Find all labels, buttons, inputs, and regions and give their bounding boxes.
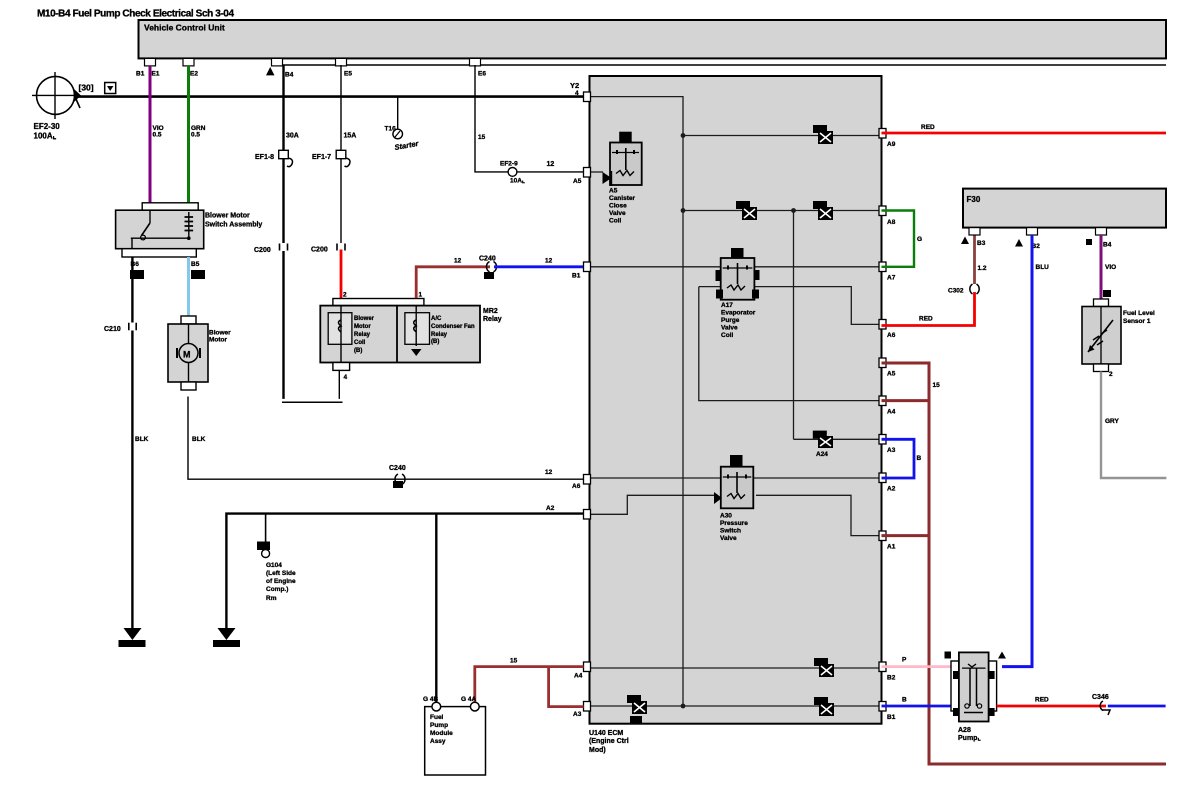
svg-text:[30]: [30] [79,83,94,93]
svg-text:A3: A3 [573,711,582,718]
svg-text:Sensor 1: Sensor 1 [1123,318,1151,325]
svg-text:0.5: 0.5 [191,132,200,139]
internal wiring [590,97,882,706]
svg-text:Mod): Mod) [589,747,606,754]
svg-text:F30: F30 [967,195,981,204]
svg-text:Motor: Motor [209,337,228,344]
svg-text:Purge: Purge [721,317,740,324]
inline connector on wire 2 [311,243,346,254]
svg-text:B1: B1 [572,273,581,280]
svg-text:Condenser Fan: Condenser Fan [431,324,475,330]
svg-text:C240: C240 [389,465,406,472]
ground G1 [119,628,146,647]
svg-text:(B): (B) [354,348,362,354]
svg-text:12: 12 [454,258,462,265]
svg-text:M: M [183,350,191,360]
svg-text:12: 12 [545,258,553,265]
connector C346 [1092,694,1110,715]
svg-text:Rm: Rm [266,595,277,602]
svg-text:Relay: Relay [431,332,448,338]
fuel pump feed wire [435,514,437,702]
svg-text:10A⌞: 10A⌞ [510,178,525,185]
relay output wire [338,370,340,399]
svg-text:M10-B4 Fuel Pump Check Electri: M10-B4 Fuel Pump Check Electrical Sch 3-… [37,9,234,20]
svg-text:A5: A5 [573,178,582,185]
svg-text:BLU: BLU [1036,264,1050,271]
svg-text:G104: G104 [266,562,282,569]
svg-text:A4: A4 [887,409,896,416]
svg-text:Coil: Coil [721,332,733,339]
fuse EF1-7 [312,133,356,167]
brown wire [973,235,976,284]
left ground wire [131,257,133,629]
svg-text:GRY: GRY [1105,418,1120,425]
svg-text:A2: A2 [546,505,555,512]
fuse EF2-9 [500,161,525,185]
red to fuse bar [882,292,975,326]
svg-text:Vehicle Control Unit: Vehicle Control Unit [144,23,225,33]
svg-text:A17: A17 [721,302,733,309]
junction dots [681,133,686,138]
svg-text:RED: RED [921,124,935,131]
svg-text:A6: A6 [887,332,896,339]
svg-text:Valve: Valve [721,325,738,332]
cyan wire [187,257,190,316]
svg-text:A5: A5 [887,371,896,378]
svg-text:1.2: 1.2 [978,265,987,272]
fuse bar right [963,189,1166,228]
svg-text:Valve: Valve [609,210,626,217]
fuse EF1-8 [255,133,299,167]
svg-text:Switch Assembly: Switch Assembly [205,222,262,229]
svg-text:P: P [902,657,907,664]
svg-text:of Engine: of Engine [266,578,296,585]
wire purple [149,66,152,203]
red wire to relay box [340,250,343,300]
svg-text:A9: A9 [887,141,896,148]
svg-text:B4: B4 [1103,242,1112,249]
svg-text:B1: B1 [887,714,896,721]
blower motor M1 [168,316,208,390]
svg-text:C240: C240 [479,256,496,263]
svg-text:BLK: BLK [192,436,206,443]
svg-text:EF2-9: EF2-9 [500,161,518,168]
gray wire [1101,372,1166,479]
main battery feed wire [74,95,590,98]
svg-text:A6: A6 [572,483,581,490]
svg-text:RED: RED [1035,697,1049,704]
svg-text:C210: C210 [104,326,121,333]
fused wire 2 (thin) [340,65,342,250]
green loop [882,211,915,267]
svg-text:1: 1 [419,292,423,299]
svg-text:E6: E6 [478,71,486,78]
svg-text:Fuel Level: Fuel Level [1123,310,1155,317]
svg-text:VIO: VIO [1105,264,1116,271]
svg-text:A7: A7 [887,275,896,282]
PCM internal valve V2 [716,248,760,300]
svg-text:Coil: Coil [354,340,366,346]
svg-text:(Left Side: (Left Side [266,570,296,577]
svg-text:4: 4 [344,374,348,381]
svg-text:Relay: Relay [483,316,502,323]
connector C240 on motor ground [389,465,406,488]
wire green [187,66,190,203]
svg-text:A1: A1 [887,544,896,551]
red wire top [882,132,1167,135]
svg-text:2: 2 [343,292,347,299]
svg-text:Close: Close [609,203,627,210]
maroon supply from pump module [475,667,584,707]
relay contact symbols [813,125,833,144]
svg-text:12: 12 [545,469,553,476]
svg-text:B1: B1 [136,71,145,78]
svg-text:MR2: MR2 [483,308,498,315]
svg-text:G 4B: G 4B [423,696,438,703]
svg-text:Blower Motor: Blower Motor [205,213,250,220]
purple wire right [1100,235,1103,299]
PCM internal valve V3 [714,455,753,508]
svg-text:100A⌞: 100A⌞ [34,132,57,141]
fused wire 1 (thick) [282,65,284,399]
starter branch [385,97,421,152]
blue wire from fuse bar [1002,235,1032,667]
svg-text:G 4A: G 4A [461,696,476,703]
svg-text:C200: C200 [311,247,328,254]
svg-text:Fuel: Fuel [430,714,444,721]
inline connector on wire 1 [254,243,288,254]
svg-text:12: 12 [547,161,555,168]
fuel pump module white box [423,696,486,775]
svg-text:A/C: A/C [431,316,442,322]
svg-text:EF1-7: EF1-7 [312,154,331,161]
svg-text:B4: B4 [285,72,294,79]
svg-text:E2: E2 [190,71,198,78]
inline connector C210 [104,323,137,334]
svg-text:T16: T16 [385,126,397,133]
joint bar for relay outputs [282,401,343,403]
svg-text:Switch: Switch [720,528,741,535]
svg-text:A24: A24 [816,451,828,458]
svg-text:Motor: Motor [354,324,371,330]
svg-text:Blower: Blower [354,316,375,322]
blue wire into pump [882,705,952,708]
svg-text:G: G [917,236,922,243]
svg-text:Module: Module [430,730,453,737]
svg-text:E5: E5 [344,71,352,78]
svg-text:A8: A8 [887,219,896,226]
PCM edge tabs left [584,92,591,711]
svg-text:RED: RED [919,316,933,323]
svg-text:EF1-8: EF1-8 [255,154,274,161]
triangle marker [266,67,275,75]
svg-text:A30: A30 [720,513,732,520]
PCM internal valve V1 [590,132,642,186]
svg-text:Canister: Canister [609,195,635,202]
svg-text:A28: A28 [958,727,971,734]
svg-text:A3: A3 [887,447,896,454]
tabs under fuse bar [969,228,1107,235]
svg-text:BLK: BLK [135,436,149,443]
maroon trunk [882,363,1167,764]
junction marker box [105,83,116,94]
svg-text:B2: B2 [887,675,896,682]
C240 dark red / blue link [416,256,589,299]
PCM edge tabs right [879,129,886,712]
svg-text:Pump⌞: Pump⌞ [958,735,981,742]
svg-text:VIO: VIO [153,125,164,132]
svg-text:A4: A4 [574,673,583,680]
svg-text:EF2-30: EF2-30 [34,122,61,131]
bus wire under control unit [277,64,1166,66]
svg-text:U140 ECM: U140 ECM [589,730,623,737]
blue loop [882,439,915,478]
battery source symbol [32,72,81,119]
svg-text:(Engine Ctrl: (Engine Ctrl [589,738,629,745]
red wire out of pump [997,705,1106,708]
svg-text:Y2: Y2 [570,81,579,90]
svg-text:Pump: Pump [430,722,448,729]
svg-text:Assy: Assy [430,738,446,745]
svg-text:B3: B3 [977,240,986,247]
fuel level sensor [1082,299,1121,372]
svg-text:C346: C346 [1092,694,1109,701]
svg-text:Coil: Coil [609,218,621,225]
svg-text:B5: B5 [191,261,200,268]
svg-text:0.5: 0.5 [153,132,162,139]
svg-text:E1: E1 [152,71,160,78]
svg-text:Blower: Blower [209,330,231,337]
svg-text:(B): (B) [431,339,439,345]
fused wire 3 to PCM [475,65,589,172]
svg-text:30A: 30A [286,133,299,140]
thick ground bus [226,514,589,629]
svg-text:C200: C200 [254,247,271,254]
connector on red [970,284,979,294]
svg-text:A5: A5 [609,188,618,195]
svg-text:15: 15 [510,658,518,665]
svg-text:B: B [902,697,907,704]
blue wire to frame [1108,705,1166,708]
svg-text:Relay: Relay [354,332,371,338]
ground G2 [213,628,240,647]
svg-text:Valve: Valve [720,535,737,542]
svg-text:Comp.): Comp.) [266,586,288,593]
svg-text:15: 15 [933,382,941,389]
svg-text:2: 2 [1109,371,1113,378]
vehicle control unit box U1 [139,20,1167,58]
pink wire [882,665,952,668]
svg-text:Pressure: Pressure [720,520,748,527]
svg-text:15A: 15A [344,133,357,140]
svg-text:15: 15 [478,134,486,141]
svg-text:Evaporator: Evaporator [721,310,756,317]
radiator fan relay box [320,299,480,371]
svg-text:C302: C302 [948,288,964,295]
svg-text:B: B [917,455,922,462]
motor ground wire [188,397,587,480]
connector tabs under control unit [145,58,481,66]
fuel pump component [945,652,1007,722]
blower switch component S1 [116,203,204,257]
svg-text:A2: A2 [887,486,896,493]
svg-text:4: 4 [575,90,579,97]
svg-text:GRN: GRN [191,125,206,132]
chassis point branch [257,514,296,602]
